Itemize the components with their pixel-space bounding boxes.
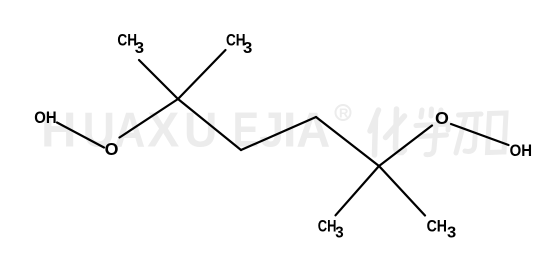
svg-text:3: 3	[335, 224, 344, 241]
watermark xue character	[416, 109, 449, 155]
svg-text:R: R	[339, 106, 349, 121]
wire C4-C5	[316, 117, 379, 166]
svg-text:O: O	[105, 139, 119, 159]
svg-text:O: O	[435, 108, 449, 128]
svg-text:J: J	[259, 104, 284, 158]
watermark jia character	[456, 113, 506, 153]
svg-text:CH: CH	[427, 217, 447, 235]
svg-text:3: 3	[135, 40, 144, 57]
wire C3-C4	[241, 117, 316, 150]
structure bonds	[57, 50, 509, 216]
label CH3 bottom-right	[427, 217, 457, 241]
svg-text:A: A	[296, 104, 330, 158]
svg-text:OH: OH	[510, 141, 532, 160]
svg-text:CH: CH	[318, 218, 337, 236]
label CH3 top-left	[117, 32, 144, 58]
svg-text:X: X	[147, 104, 179, 158]
label CH3 top-right	[226, 32, 252, 58]
watermark HUAXUEJIA	[41, 104, 330, 158]
label CH3 bottom-left	[318, 218, 344, 242]
wire C5-O right	[379, 126, 432, 167]
svg-text:E: E	[233, 104, 259, 158]
svg-text:3: 3	[243, 40, 252, 57]
watermark registered mark	[336, 105, 351, 121]
wire C5-CH3 bottom-right	[379, 166, 425, 216]
wire O-OH hydroperoxide right	[451, 124, 509, 145]
wire C2-CH3 top-right	[178, 50, 226, 99]
svg-text:OH: OH	[34, 108, 56, 127]
watermark hua character	[370, 109, 405, 155]
svg-text:U: U	[184, 104, 217, 158]
svg-text:3: 3	[447, 225, 456, 242]
wire C5-CH3 bottom-left	[336, 166, 380, 215]
wire C2-C3	[178, 99, 241, 150]
wire OH-O hydroperoxide left	[57, 123, 104, 148]
wire O-C2 left	[120, 99, 179, 138]
wire C2-CH3 top-left	[139, 60, 178, 99]
